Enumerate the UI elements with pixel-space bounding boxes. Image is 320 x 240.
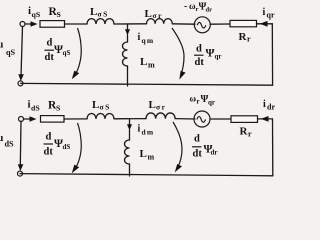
svg-text:dS: dS — [31, 104, 40, 113]
svg-text:qS: qS — [32, 10, 41, 19]
resistor R_r (d-axis) — [231, 116, 258, 123]
svg-text:u: u — [0, 40, 4, 51]
current arrow i_qm — [125, 29, 130, 35]
source - omega_r Psi_dr — [194, 17, 210, 33]
wire — [64, 118, 87, 120]
flux arrow d/dt Psi_qS — [75, 28, 81, 75]
svg-text:dr: dr — [206, 7, 213, 14]
wire right side (d) — [272, 119, 274, 176]
terminal bottom-left (q) — [18, 81, 23, 86]
svg-text:-: - — [184, 1, 187, 12]
current arrow i_dr — [261, 116, 269, 122]
terminal top-left (d) — [19, 117, 24, 122]
svg-text:i: i — [263, 99, 266, 110]
svg-text:σS: σS — [98, 10, 109, 19]
svg-text:ω: ω — [190, 94, 197, 104]
wire left side (q) — [21, 27, 23, 77]
flux arrow d/dt Psi_dr — [173, 122, 182, 168]
svg-text:qr: qr — [267, 11, 275, 20]
resistor R_S — [40, 21, 65, 28]
svg-text:S: S — [57, 10, 61, 19]
svg-text:dt: dt — [195, 57, 205, 68]
svg-text:Ψ: Ψ — [206, 48, 215, 60]
svg-text:dt: dt — [44, 147, 54, 158]
wire bottom rail (d) — [20, 174, 273, 176]
node junction d — [129, 119, 131, 125]
svg-text:dr: dr — [267, 103, 275, 112]
terminal top-left — [20, 22, 25, 27]
svg-text:σr: σr — [153, 11, 163, 20]
svg-text:dt: dt — [193, 148, 203, 159]
inductor L_m (d-axis) — [129, 130, 131, 140]
wire — [176, 118, 196, 120]
svg-text:i: i — [138, 124, 141, 135]
inductor L_sigmaS — [87, 19, 114, 24]
resistor R_r (q-axis) — [230, 20, 257, 26]
svg-text:L: L — [140, 148, 147, 160]
wire right side (q) — [271, 24, 273, 85]
svg-text:L: L — [92, 99, 99, 111]
svg-text:d: d — [47, 38, 53, 49]
svg-text:r: r — [248, 130, 252, 139]
wire — [65, 23, 88, 25]
wire — [257, 23, 273, 25]
svg-text:d: d — [46, 132, 52, 143]
terminal bottom-left (d) — [18, 171, 23, 176]
flux arrow d/dt Psi_dS — [75, 123, 81, 169]
svg-text:qm: qm — [142, 36, 155, 45]
svg-text:L: L — [140, 56, 147, 68]
wire — [210, 118, 231, 120]
wire — [258, 118, 273, 120]
svg-text:dS: dS — [63, 143, 71, 151]
current arrow i_dS — [24, 118, 31, 120]
svg-text:m: m — [148, 153, 155, 162]
svg-text:qr: qr — [208, 99, 215, 107]
svg-text:u: u — [0, 133, 4, 144]
svg-text:d: d — [194, 134, 200, 145]
svg-text:S: S — [56, 104, 60, 113]
node junction q — [127, 24, 129, 30]
svg-text:L: L — [90, 6, 97, 18]
svg-text:r: r — [197, 98, 200, 106]
svg-text:i: i — [138, 32, 141, 43]
svg-text:dm: dm — [142, 128, 155, 137]
svg-text:dS: dS — [5, 140, 15, 149]
current arrow i_qS — [25, 23, 31, 25]
svg-text:qr: qr — [215, 53, 222, 61]
svg-text:dr: dr — [211, 149, 218, 157]
inductor L_m (q-axis) — [127, 35, 129, 42]
source omega_r Psi_qr — [194, 111, 210, 127]
svg-text:σS: σS — [100, 103, 111, 112]
resistor R_S (d) — [41, 116, 65, 123]
wire — [210, 23, 230, 25]
wire — [114, 23, 147, 25]
svg-text:qS: qS — [63, 49, 71, 57]
current arrow i_qr — [260, 21, 268, 27]
svg-text:σr: σr — [156, 103, 166, 112]
svg-text:m: m — [148, 61, 155, 70]
svg-text:qS: qS — [6, 48, 16, 57]
wire — [114, 118, 146, 120]
wire — [172, 23, 195, 25]
inductor L_sigma_r (q-axis) — [147, 19, 173, 24]
svg-text:i: i — [263, 7, 266, 18]
current arrow i_dm — [127, 124, 132, 130]
svg-text:dt: dt — [45, 52, 55, 63]
svg-text:r: r — [247, 35, 251, 44]
inductor L_sigma_r (d-axis) — [146, 113, 175, 119]
svg-text:d: d — [196, 44, 202, 55]
wire bottom rail (q) — [21, 83, 273, 85]
flux arrow d/dt Psi_qr — [172, 28, 184, 75]
svg-text:L: L — [145, 8, 152, 20]
wire left side (d) — [19, 121, 22, 166]
svg-text:L: L — [149, 99, 156, 111]
inductor L_sigmaS (d) — [87, 114, 114, 119]
